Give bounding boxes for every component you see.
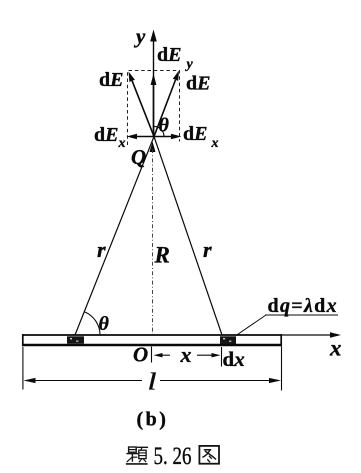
svg-text:O: O (133, 343, 148, 367)
svg-text:x: x (180, 342, 192, 367)
charge element dx (hatched) (220, 336, 236, 344)
dashed construction rectangle (128, 71, 180, 146)
svg-text:(b): (b) (137, 409, 169, 431)
y axis (150, 30, 157, 137)
caption: character TI (&#39064;) drawn as strokes (127, 447, 148, 464)
vector dEy (151, 74, 157, 137)
extension line left (22, 347, 24, 390)
vector dE right (154, 71, 179, 137)
angle arc theta top (153, 126, 164, 136)
tick at dx element (221, 347, 223, 367)
underline of dq label (265, 314, 338, 316)
vector dEx left (127, 134, 155, 140)
R arrow (distance O to Q) (150, 142, 156, 153)
svg-text:dx: dx (223, 347, 245, 371)
svg-text:r: r (97, 237, 106, 262)
x axis (282, 332, 341, 337)
svg-text:dE: dE (186, 73, 210, 95)
caption: character TU (&#22270;) drawn as strokes (199, 446, 219, 464)
tick below O (axis extension) (151, 347, 153, 363)
R dashed axis line (152, 149, 154, 334)
x dimension right arrow (197, 353, 221, 357)
svg-text:dq=λdx: dq=λdx (268, 295, 338, 317)
charge element left (hatched) (67, 336, 84, 343)
svg-text:l: l (148, 369, 157, 395)
extension line right (281, 347, 283, 391)
svg-text:5. 26: 5. 26 (154, 443, 192, 470)
vector dEx right (154, 134, 182, 140)
vector dE left (129, 72, 155, 137)
r line left (75, 137, 154, 336)
svg-text:R: R (154, 243, 170, 268)
r line right (154, 137, 222, 336)
l dimension line with arrows (24, 378, 282, 383)
svg-text:θ: θ (159, 115, 170, 137)
svg-text:θ: θ (99, 313, 110, 335)
rod body (22, 334, 282, 346)
svg-text:dE: dE (99, 69, 123, 91)
x dimension left arrow (154, 353, 171, 357)
svg-text:x: x (329, 336, 342, 361)
leader line from dq label to dx element (236, 315, 266, 336)
svg-text:Q: Q (131, 145, 146, 169)
svg-text:r: r (203, 237, 212, 262)
angle arc theta bottom (84, 312, 100, 335)
